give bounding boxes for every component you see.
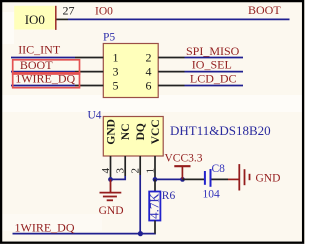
svg-text:SPI_MISO: SPI_MISO [186, 44, 240, 58]
svg-text:GND: GND [99, 205, 124, 217]
svg-text:4.7K: 4.7K [147, 193, 162, 219]
svg-text:LCD_DC: LCD_DC [190, 72, 237, 86]
svg-text:2: 2 [146, 51, 152, 65]
svg-text:IIC_INT: IIC_INT [18, 43, 61, 57]
svg-text:IO_SEL: IO_SEL [192, 58, 232, 72]
svg-text:VCC: VCC [150, 119, 162, 144]
svg-text:104: 104 [203, 188, 221, 200]
svg-text:1: 1 [113, 51, 119, 65]
svg-text:4: 4 [146, 65, 152, 79]
svg-text:IO0: IO0 [25, 12, 45, 27]
svg-text:3: 3 [115, 168, 127, 174]
svg-text:BOOT: BOOT [248, 3, 281, 17]
svg-text:3: 3 [113, 65, 119, 79]
svg-text:DQ: DQ [135, 123, 147, 140]
svg-text:GND: GND [106, 119, 118, 145]
svg-text:U4: U4 [88, 109, 102, 121]
svg-text:DHT11&DS18B20: DHT11&DS18B20 [170, 123, 271, 138]
svg-text:VCC3.3: VCC3.3 [165, 152, 203, 164]
svg-text:NC: NC [120, 123, 132, 140]
svg-text:2: 2 [130, 168, 142, 174]
svg-text:27: 27 [63, 4, 75, 18]
svg-text:5: 5 [113, 79, 119, 93]
svg-text:1WIRE_DQ: 1WIRE_DQ [15, 221, 75, 235]
svg-text:P5: P5 [103, 32, 115, 44]
svg-text:IO0: IO0 [95, 6, 113, 18]
svg-text:GND: GND [256, 173, 281, 185]
svg-text:R6: R6 [162, 190, 176, 202]
svg-text:6: 6 [146, 79, 152, 93]
svg-text:4: 4 [100, 168, 112, 174]
svg-text:C8: C8 [212, 163, 226, 175]
svg-text:1: 1 [144, 168, 156, 174]
